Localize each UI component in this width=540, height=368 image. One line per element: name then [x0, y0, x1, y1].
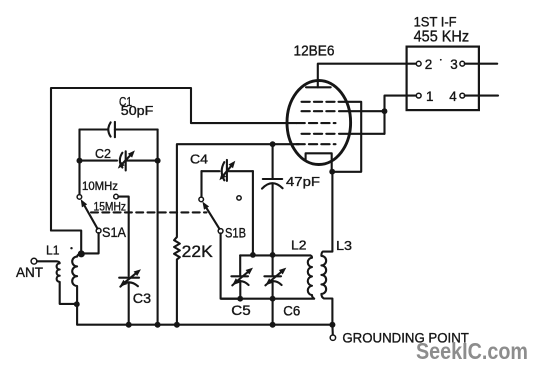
svg-text:15MHz: 15MHz [94, 202, 127, 214]
svg-text:L3: L3 [336, 238, 352, 253]
svg-text:1ST I-F: 1ST I-F [414, 13, 457, 29]
svg-text:ANT: ANT [16, 265, 43, 280]
svg-text:50pF: 50pF [121, 104, 154, 118]
svg-text:455 KHz: 455 KHz [414, 29, 470, 46]
svg-text:3: 3 [450, 57, 458, 72]
svg-text:C5: C5 [231, 303, 250, 318]
svg-text:L2: L2 [291, 238, 307, 252]
svg-text:47pF: 47pF [286, 174, 320, 189]
svg-text:2: 2 [425, 57, 433, 72]
svg-text:12BE6: 12BE6 [294, 44, 335, 60]
svg-text:S1A: S1A [102, 225, 126, 240]
svg-text:SeekIC.com: SeekIC.com [416, 338, 528, 364]
svg-text:L1: L1 [46, 243, 60, 258]
svg-text:C6: C6 [283, 304, 300, 319]
svg-text:22K: 22K [182, 243, 213, 261]
svg-text:S1B: S1B [225, 225, 246, 240]
svg-text:4: 4 [449, 89, 457, 104]
svg-text:C3: C3 [133, 291, 151, 306]
svg-text:1: 1 [426, 89, 434, 104]
svg-text:C4: C4 [190, 151, 208, 166]
svg-text:10MHz: 10MHz [82, 181, 118, 193]
svg-text:C2: C2 [95, 146, 111, 161]
